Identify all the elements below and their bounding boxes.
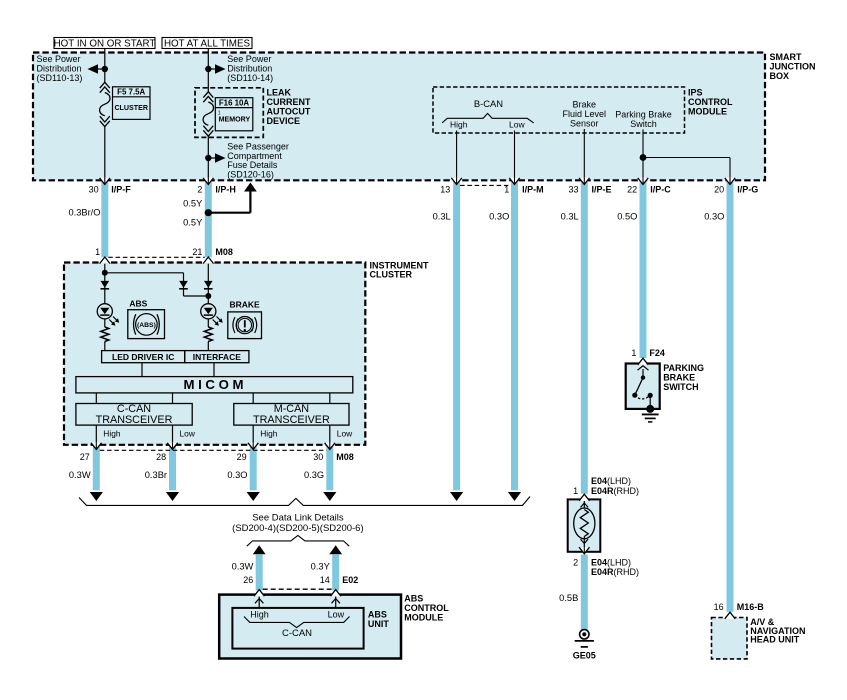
svg-text:0.3Y: 0.3Y: [311, 561, 330, 571]
svg-text:See Data Link Details: See Data Link Details: [252, 512, 344, 523]
svg-text:Low: Low: [337, 429, 353, 439]
svg-text:SMART: SMART: [770, 52, 802, 62]
svg-text:Switch: Switch: [630, 119, 657, 129]
svg-text:CLUSTER: CLUSTER: [370, 269, 413, 279]
svg-text:0.5Y: 0.5Y: [183, 199, 202, 209]
svg-text:I/P-F: I/P-F: [111, 185, 131, 195]
svg-text:I/P-C: I/P-C: [650, 185, 671, 195]
svg-text:ABS: ABS: [368, 610, 387, 620]
svg-text:HOT IN ON OR START: HOT IN ON OR START: [54, 39, 156, 50]
svg-text:JUNCTION: JUNCTION: [770, 62, 816, 72]
svg-text:0.3L: 0.3L: [433, 211, 451, 221]
svg-text:CONTROL: CONTROL: [688, 97, 733, 107]
svg-text:F5 7.5A: F5 7.5A: [117, 88, 145, 97]
svg-text:TRANSCEIVER: TRANSCEIVER: [253, 414, 330, 426]
svg-text:0.3W: 0.3W: [232, 561, 254, 571]
svg-text:0.3Br: 0.3Br: [145, 470, 167, 480]
svg-text:(ABS): (ABS): [137, 322, 156, 329]
svg-text:30: 30: [313, 452, 323, 462]
svg-text:B-CAN: B-CAN: [474, 98, 503, 109]
svg-text:Brake: Brake: [573, 100, 597, 110]
svg-text:Low: Low: [180, 429, 196, 439]
svg-text:High: High: [250, 609, 269, 619]
svg-text:F24: F24: [649, 348, 665, 358]
svg-text:2: 2: [573, 557, 578, 567]
svg-text:0.3W: 0.3W: [69, 470, 91, 480]
svg-text:LED DRIVER IC: LED DRIVER IC: [112, 352, 174, 362]
svg-text:E04(LHD): E04(LHD): [591, 557, 631, 567]
svg-text:High: High: [260, 429, 278, 439]
svg-text:HOT AT ALL TIMES: HOT AT ALL TIMES: [164, 39, 250, 50]
svg-text:CONTROL: CONTROL: [404, 603, 449, 613]
svg-text:(SD110-14): (SD110-14): [227, 73, 273, 83]
svg-text:I/P-E: I/P-E: [592, 185, 612, 195]
svg-text:29: 29: [237, 452, 247, 462]
svg-text:E04R(RHD): E04R(RHD): [591, 567, 639, 577]
svg-text:ABS: ABS: [404, 594, 423, 604]
svg-text:Sensor: Sensor: [570, 119, 599, 129]
svg-text:0.3O: 0.3O: [489, 211, 509, 221]
svg-text:IPS: IPS: [688, 88, 703, 98]
svg-text:BRAKE: BRAKE: [663, 373, 695, 383]
svg-text:See Power: See Power: [37, 54, 81, 64]
svg-text:M08: M08: [215, 247, 233, 257]
svg-text:M08: M08: [336, 452, 354, 462]
svg-text:MODULE: MODULE: [688, 107, 727, 117]
svg-text:Low: Low: [328, 609, 345, 619]
svg-text:16: 16: [714, 602, 724, 612]
svg-text:C-CAN: C-CAN: [282, 628, 312, 639]
svg-text:14: 14: [320, 575, 330, 585]
svg-text:(SD110-13): (SD110-13): [37, 73, 83, 83]
svg-text:PARKING: PARKING: [663, 363, 704, 373]
svg-text:0.3O: 0.3O: [704, 211, 724, 221]
svg-text:0.3G: 0.3G: [304, 470, 324, 480]
svg-text:ABS: ABS: [129, 299, 147, 309]
svg-text:Distribution: Distribution: [227, 63, 272, 73]
svg-text:E02: E02: [342, 575, 358, 585]
svg-text:1: 1: [573, 486, 578, 496]
svg-text:LEAK: LEAK: [267, 87, 292, 97]
svg-text:I/P-H: I/P-H: [215, 185, 236, 195]
svg-text:20: 20: [714, 185, 724, 195]
svg-text:26: 26: [243, 575, 253, 585]
svg-text:DEVICE: DEVICE: [267, 116, 301, 126]
svg-text:I/P-G: I/P-G: [737, 185, 758, 195]
svg-text:TRANSCEIVER: TRANSCEIVER: [96, 414, 173, 426]
svg-text:1: 1: [631, 348, 636, 358]
svg-text:F16 10A: F16 10A: [219, 99, 250, 108]
svg-text:30: 30: [89, 185, 99, 195]
svg-text:(SD120-16): (SD120-16): [227, 169, 274, 179]
svg-text:SWITCH: SWITCH: [663, 382, 699, 392]
svg-text:Fluid Level: Fluid Level: [563, 109, 607, 119]
svg-text:1: 1: [504, 185, 509, 195]
svg-text:BOX: BOX: [770, 71, 790, 81]
svg-text:INTERFACE: INTERFACE: [193, 352, 242, 362]
svg-text:HEAD UNIT: HEAD UNIT: [750, 635, 800, 645]
svg-text:0.3L: 0.3L: [561, 211, 579, 221]
svg-text:0.5O: 0.5O: [617, 211, 637, 221]
svg-text:E04(LHD): E04(LHD): [591, 476, 631, 486]
svg-text:BRAKE: BRAKE: [229, 300, 260, 310]
svg-text:See Power: See Power: [227, 54, 271, 64]
svg-text:21: 21: [192, 247, 202, 257]
svg-text:High: High: [103, 429, 121, 439]
svg-text:0.3O: 0.3O: [227, 470, 247, 480]
svg-text:MODULE: MODULE: [404, 613, 443, 623]
svg-text:M I C O M: M I C O M: [183, 377, 243, 392]
svg-text:UNIT: UNIT: [368, 619, 389, 629]
svg-text:13: 13: [440, 185, 450, 195]
svg-text:28: 28: [156, 452, 166, 462]
svg-text:I/P-M: I/P-M: [522, 185, 544, 195]
svg-text:MEMORY: MEMORY: [219, 115, 251, 123]
svg-text:High: High: [450, 120, 468, 130]
svg-text:33: 33: [568, 185, 578, 195]
svg-text:0.5Y: 0.5Y: [183, 218, 202, 228]
svg-text:E04R(RHD): E04R(RHD): [591, 486, 639, 496]
svg-text:M16-B: M16-B: [737, 602, 765, 612]
svg-text:2: 2: [197, 185, 202, 195]
svg-text:CURRENT: CURRENT: [267, 97, 312, 107]
svg-text:Low: Low: [509, 120, 525, 130]
svg-text:27: 27: [80, 452, 90, 462]
svg-text:0.3Br/O: 0.3Br/O: [68, 208, 100, 218]
svg-text:(SD200-4)(SD200-5)(SD200-6): (SD200-4)(SD200-5)(SD200-6): [232, 523, 363, 534]
svg-text:AUTOCUT: AUTOCUT: [267, 106, 311, 116]
svg-text:CLUSTER: CLUSTER: [114, 104, 148, 112]
svg-text:0.5B: 0.5B: [559, 593, 578, 603]
svg-text:1: 1: [95, 247, 100, 257]
svg-text:Distribution: Distribution: [37, 63, 82, 73]
svg-text:Parking Brake: Parking Brake: [615, 109, 672, 119]
svg-text:22: 22: [627, 185, 637, 195]
svg-text:GE05: GE05: [573, 651, 596, 661]
